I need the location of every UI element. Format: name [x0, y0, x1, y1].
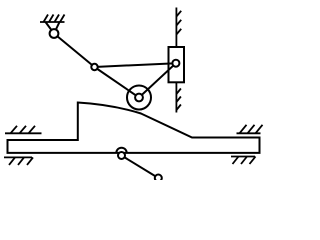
roller (outer circle) — [127, 86, 151, 110]
link B-C — [95, 63, 176, 67]
roller hub D — [135, 94, 143, 102]
ground pivot hatch A — [40, 15, 65, 23]
pin F — [155, 175, 162, 182]
pin E — [118, 152, 125, 159]
vertical slider guide upper segment (hatched) — [176, 8, 181, 48]
cam bar (translating slider with curved cam surface) — [8, 103, 260, 153]
ground guide top-left (hatched) — [5, 126, 42, 134]
link E-F — [122, 156, 159, 179]
link A-B — [54, 34, 95, 68]
slider block — [169, 47, 185, 82]
ground guide top-right (hatched) — [237, 125, 263, 134]
pin C (slider) — [172, 60, 179, 67]
ground guide bottom-right (hatched) — [231, 157, 256, 165]
pin boss E on cam bar — [116, 148, 126, 153]
pin B — [91, 64, 97, 70]
link D-C — [139, 63, 176, 97]
pin A — [50, 29, 59, 38]
link B-D — [95, 67, 140, 98]
pivot support legs A — [46, 22, 55, 34]
vertical slider guide lower segment (hatched) — [176, 82, 181, 113]
ground guide bottom-left (hatched) — [4, 157, 33, 165]
